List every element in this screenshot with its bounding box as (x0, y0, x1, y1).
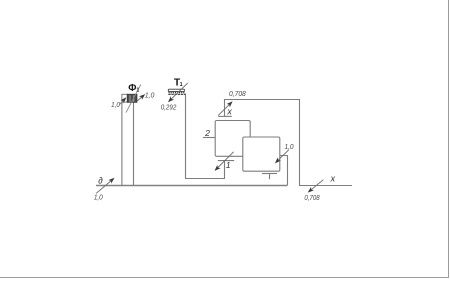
svg-text:0,708: 0,708 (304, 193, 320, 202)
component phi1 hatched box (122, 94, 137, 102)
arrow 1,0 into box2 (276, 150, 288, 162)
svg-text:1: 1 (226, 160, 231, 170)
slash through phi1 (126, 85, 141, 113)
svg-text:x: x (226, 106, 232, 116)
tick above box1 (x terminal) (218, 115, 232, 117)
svg-text:0,292: 0,292 (161, 102, 177, 111)
wire riser B from phi output (133, 102, 135, 185)
component T1 bar (168, 89, 185, 94)
arrow 1 below box1 (216, 152, 234, 170)
page border bottom (0, 277, 449, 279)
arrow 0,292 through T1 (169, 83, 187, 101)
wire bottom bus (96, 185, 287, 187)
svg-text:2: 2 (204, 128, 210, 138)
wire box2 output (280, 156, 288, 186)
svg-text:1,0: 1,0 (145, 90, 155, 99)
ground bar under box2 (262, 173, 277, 175)
svg-text:1,0: 1,0 (284, 142, 294, 151)
box 2 (243, 137, 280, 171)
svg-text:1: 1 (137, 88, 140, 94)
wire riser A to phi input (121, 102, 123, 186)
arrow x output bottom right (309, 180, 323, 192)
svg-text:1,0: 1,0 (111, 100, 120, 109)
svg-text:∂: ∂ (98, 175, 103, 185)
wire T1 to box1 bottom terminal (186, 94, 225, 179)
arrow input d (96, 179, 113, 193)
box 1 (215, 121, 250, 157)
arrow 1,0 into phi1 (120, 99, 125, 105)
svg-text:1: 1 (180, 82, 183, 88)
svg-text:x: x (330, 174, 336, 184)
tick below box1 (terminal 1) (218, 160, 234, 162)
svg-text:Φ: Φ (128, 83, 136, 94)
ground stem (269, 174, 271, 180)
arrow 1,0 out of phi1 (137, 95, 144, 101)
page border right (448, 0, 450, 278)
wire x output path (225, 100, 353, 186)
wire input 2 (203, 137, 215, 139)
svg-text:1,0: 1,0 (94, 192, 104, 201)
arrow x above box1 (218, 103, 231, 116)
svg-text:0,708: 0,708 (229, 89, 246, 98)
